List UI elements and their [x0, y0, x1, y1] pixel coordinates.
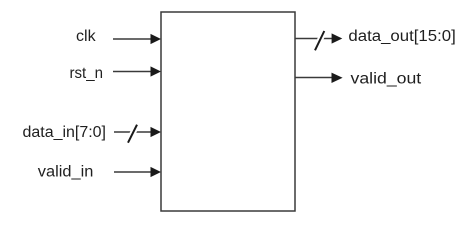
wire rst_n [113, 71, 152, 73]
arrowhead valid_in input [151, 167, 162, 177]
svg-text:clk: clk [76, 28, 96, 45]
wire clk [113, 38, 152, 40]
svg-text:data_out[15:0]: data_out[15:0] [348, 28, 455, 45]
svg-text:data_in[7:0]: data_in[7:0] [23, 124, 107, 141]
wire valid_in [114, 171, 152, 173]
svg-text:rst_n: rst_n [70, 65, 104, 82]
arrowhead rst_n input [151, 66, 162, 76]
bus slash data_out (white halo) [315, 31, 324, 50]
arrowhead data_in input [151, 127, 162, 137]
wire valid_out [295, 77, 332, 79]
svg-text:valid_in: valid_in [38, 164, 94, 181]
wire data_in [114, 131, 152, 133]
arrowhead data_out output [332, 33, 343, 43]
wire data_out [295, 38, 332, 40]
svg-text:valid_out: valid_out [351, 70, 422, 87]
bus slash data_out [315, 31, 324, 50]
arrowhead clk input [151, 34, 162, 44]
arrowhead valid_out output [332, 73, 343, 83]
bus slash data_in [128, 125, 137, 143]
bus slash data_in (white halo) [128, 125, 137, 143]
module block U1 [161, 12, 295, 211]
